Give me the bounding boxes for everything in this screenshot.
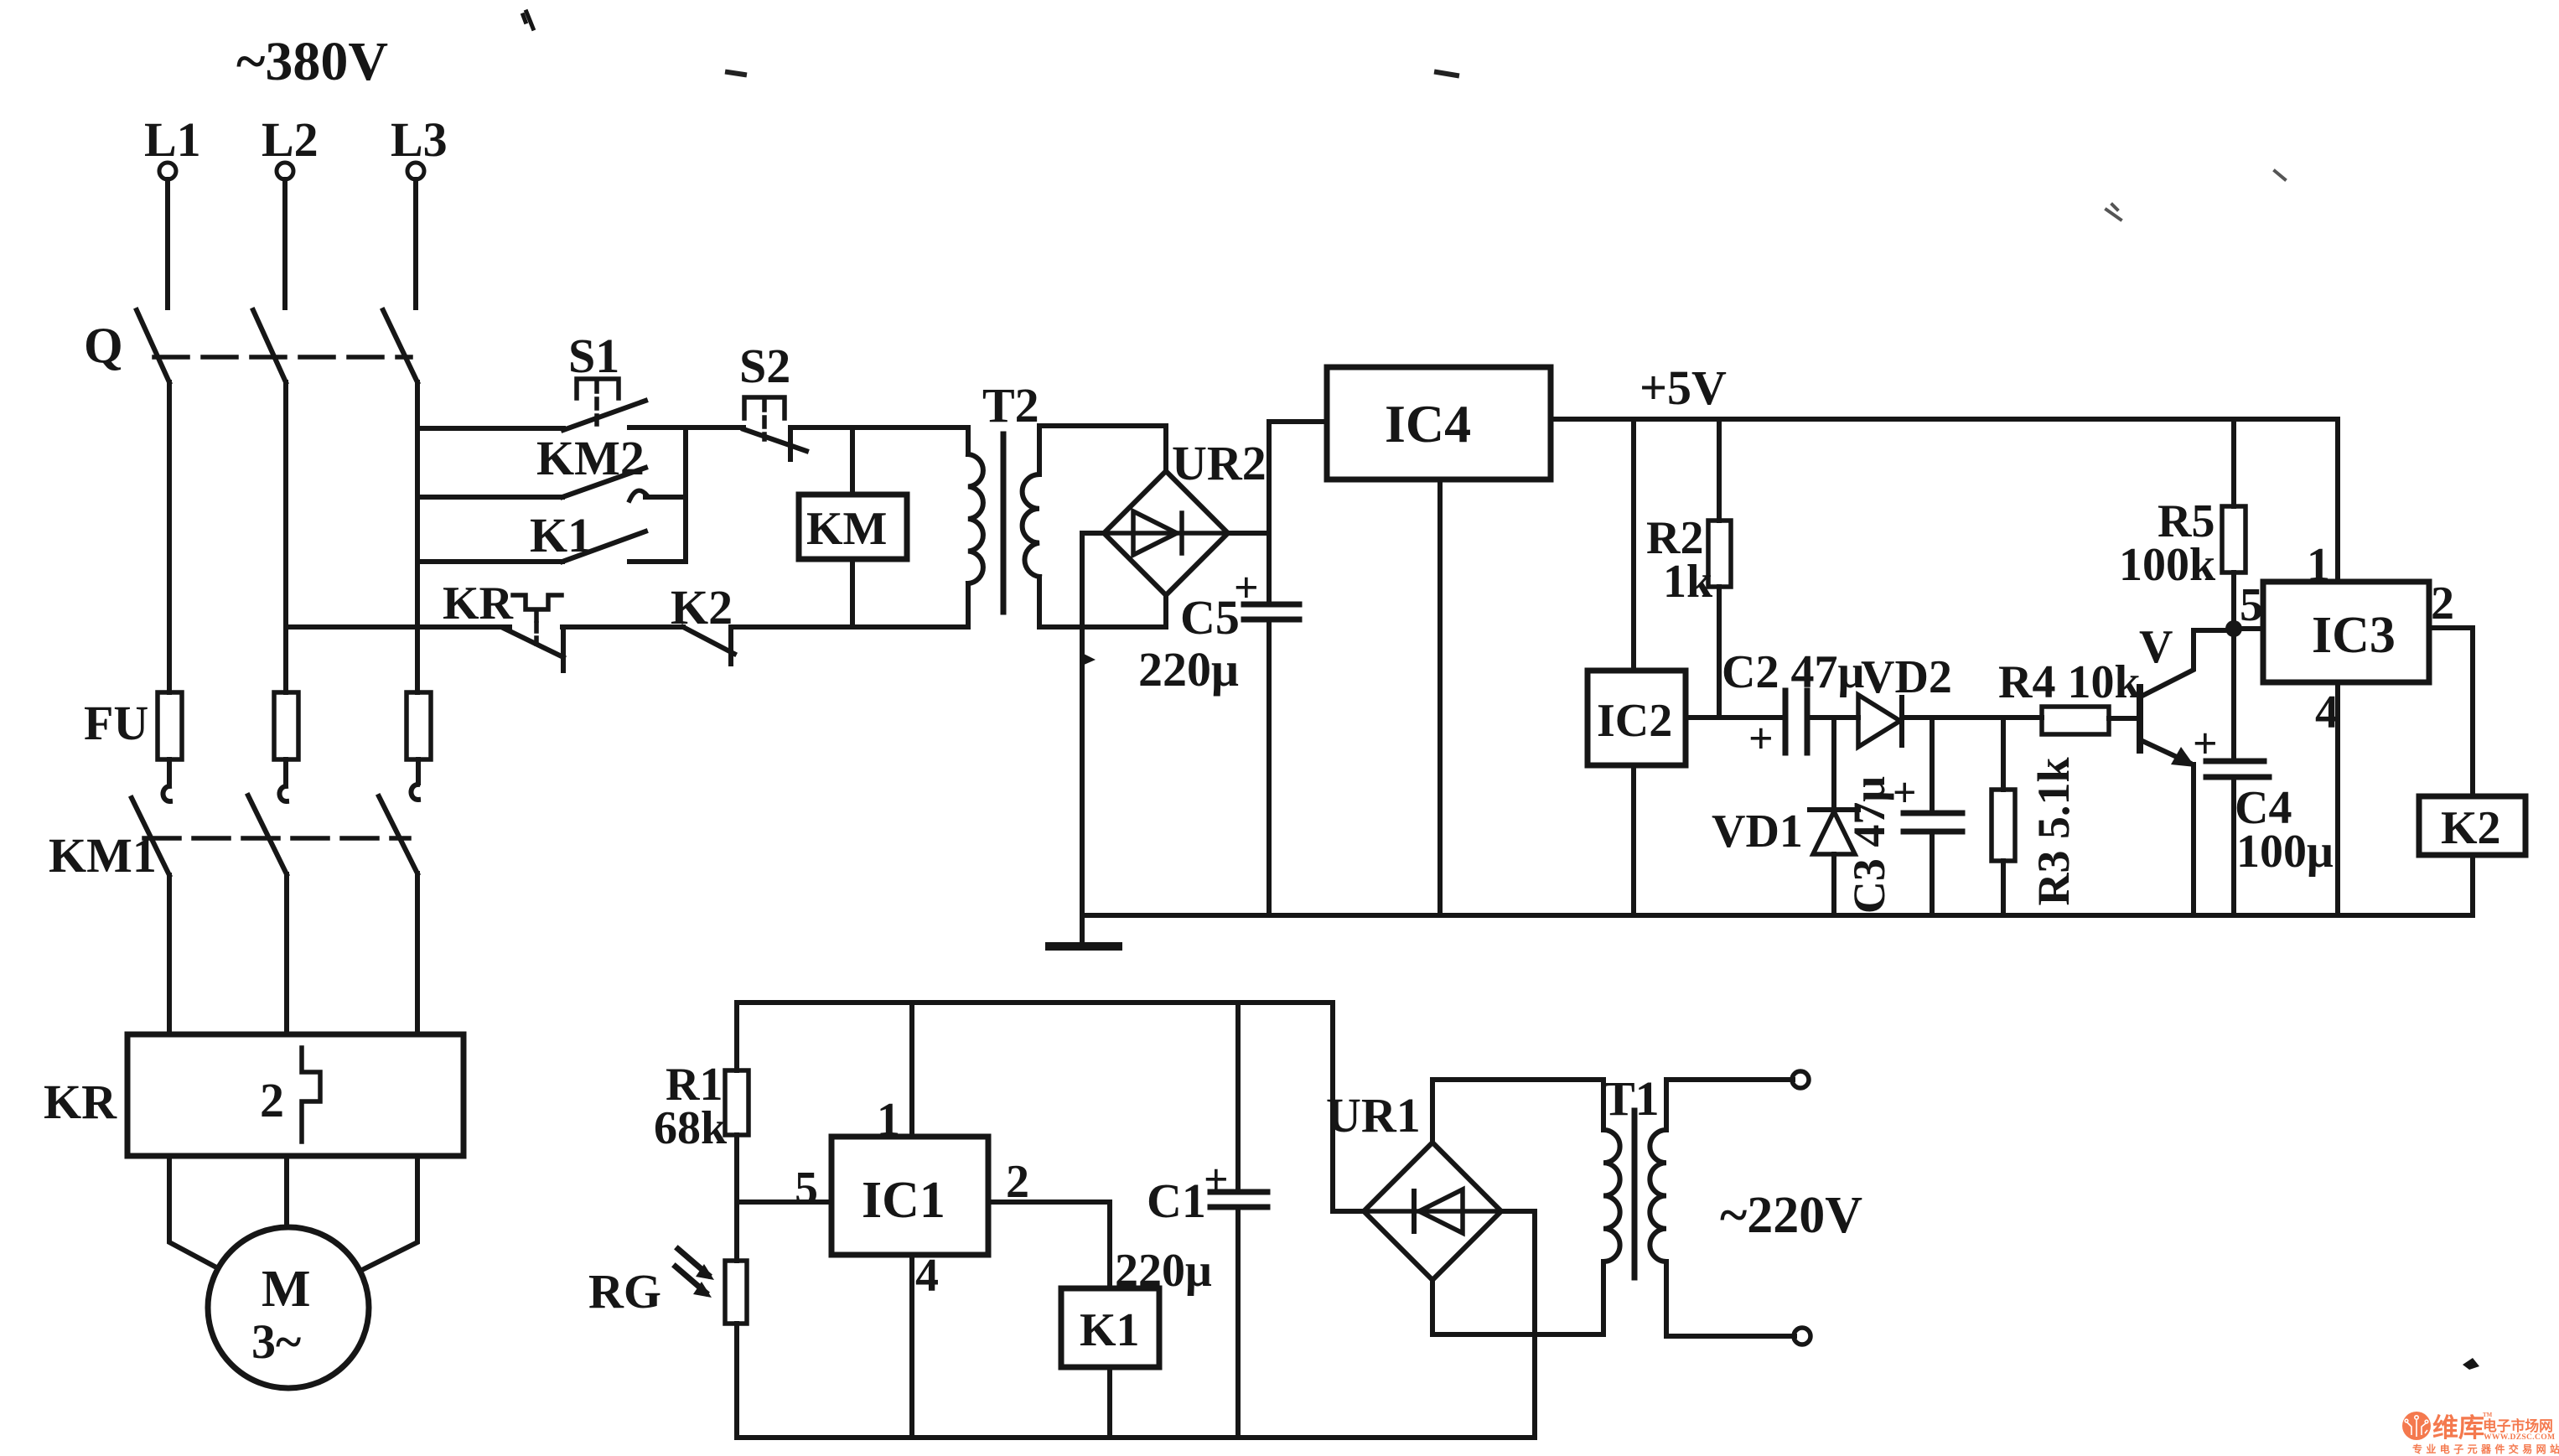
svg-text:4: 4 bbox=[2315, 687, 2339, 738]
wire UR2 right corner to C5 node bbox=[1228, 531, 1269, 536]
thermal relay KR heater element bbox=[302, 1048, 320, 1142]
diode VD1 cathode bar bbox=[1810, 807, 1858, 812]
thermal contact KR stem (dashed) bbox=[534, 624, 539, 644]
svg-text:R3 5.1k: R3 5.1k bbox=[2028, 757, 2079, 905]
svg-text:S2: S2 bbox=[739, 339, 790, 393]
wire KR return from L2 bbox=[286, 624, 510, 630]
scan speck near watermark bbox=[2463, 1358, 2479, 1370]
svg-text:~220V: ~220V bbox=[1720, 1187, 1862, 1244]
wire top rail to C1 bbox=[1235, 1003, 1241, 1192]
wire IC3 pin4 to rail bbox=[2335, 682, 2340, 915]
transformer T1 primary winding bbox=[1603, 1130, 1620, 1262]
capacitor C1 top plate bbox=[1210, 1189, 1267, 1195]
wire L1 switch to fuse bbox=[167, 382, 172, 692]
svg-text:+5V: +5V bbox=[1640, 360, 1727, 415]
switch Q blade pole 1 bbox=[137, 310, 169, 382]
capacitor C5 bottom plate bbox=[1244, 617, 1299, 623]
pushbutton S2 stem (dashed) bbox=[762, 401, 767, 439]
wire +5V to R2 bbox=[1717, 419, 1722, 521]
wire node to R3 bbox=[2001, 718, 2006, 790]
contact KM2 blade bbox=[562, 468, 645, 497]
svg-text:VD1: VD1 bbox=[1712, 806, 1803, 858]
svg-text:C5: C5 bbox=[1180, 590, 1240, 645]
contactor KM1 blade 1 bbox=[132, 798, 169, 875]
resistor R3 body bbox=[1992, 790, 2015, 861]
wire rail to R1 bbox=[734, 1003, 739, 1070]
wire IC3 pin1 to +5V bbox=[2335, 419, 2340, 582]
transformer T2 core bbox=[1001, 434, 1007, 612]
capacitor C4 bottom plate bbox=[2206, 775, 2269, 780]
wire UR1 bottom to T1 primary bbox=[1432, 1262, 1603, 1334]
wire top rail down to UR1 bbox=[1333, 1003, 1364, 1211]
svg-text:KM1: KM1 bbox=[49, 828, 157, 883]
wire KM1 pole1 to KR box bbox=[167, 875, 172, 1034]
svg-text:1: 1 bbox=[877, 1094, 900, 1146]
svg-text:~380V: ~380V bbox=[236, 31, 388, 92]
wire KR to K2 contact bbox=[562, 624, 683, 630]
capacitor C3 bottom plate bbox=[1904, 829, 1962, 835]
terminal 220V top bbox=[1792, 1071, 1809, 1088]
wire emitter to rail bbox=[2191, 764, 2196, 915]
terminal 220V bottom bbox=[1794, 1328, 1810, 1345]
wire L2 switch to fuse bbox=[283, 382, 288, 692]
bottom section bottom rail bbox=[737, 1435, 1535, 1440]
+5V rail bbox=[1551, 417, 2338, 422]
bridge rectifier UR1 diamond bbox=[1364, 1143, 1501, 1280]
contactor KM1 blade 2 bbox=[248, 795, 287, 874]
relay K1 box bbox=[1061, 1288, 1159, 1367]
svg-text:100k: 100k bbox=[2119, 539, 2216, 591]
svg-text:专业电子元器件交易网站: 专业电子元器件交易网站 bbox=[2412, 1443, 2559, 1455]
bridge rectifier UR1 diode line bbox=[1364, 1209, 1501, 1214]
wire KM1 pole2 to KR box bbox=[284, 874, 289, 1034]
switch Q mechanical link (dashed) bbox=[154, 355, 411, 360]
wire T1 secondary top to terminal bbox=[1666, 1080, 1793, 1130]
bottom section top rail bbox=[737, 1000, 1333, 1005]
svg-text:1: 1 bbox=[2307, 539, 2330, 591]
IC4 box bbox=[1327, 367, 1551, 479]
wire R3 to rail bbox=[2001, 861, 2006, 915]
svg-text:IC3: IC3 bbox=[2312, 607, 2396, 664]
wire node to C3 bbox=[1930, 718, 1935, 813]
wire R4 to transistor base bbox=[2109, 716, 2140, 721]
svg-text:2: 2 bbox=[260, 1073, 284, 1127]
junction mark on ground wire bbox=[1082, 654, 1096, 666]
capacitor C4 top plate bbox=[2206, 759, 2264, 764]
svg-text:RG: RG bbox=[588, 1264, 661, 1319]
svg-text:V: V bbox=[2139, 621, 2173, 673]
wire IC1 pin4 to bottom rail bbox=[909, 1255, 914, 1438]
pushbutton S2 fixed tick bbox=[788, 427, 793, 459]
thermal contact KR fixed tick bbox=[561, 627, 566, 671]
wire C5 node up to IC4 input bbox=[1269, 422, 1327, 533]
svg-text:IC2: IC2 bbox=[1597, 695, 1672, 747]
coil KM top wire bbox=[850, 427, 855, 495]
transformer T2 primary bottom lead bbox=[966, 583, 971, 627]
svg-text:C3 47μ: C3 47μ bbox=[1844, 776, 1894, 914]
contactor KM1 fixed hook 2 bbox=[279, 786, 287, 801]
svg-text:L2: L2 bbox=[262, 112, 319, 167]
wire row B fixed side bbox=[645, 495, 686, 500]
pushbutton S2 blade bbox=[743, 429, 806, 451]
photoresistor RG light arrow 2 bbox=[676, 1267, 706, 1293]
bridge rectifier UR1 diode triangle bbox=[1419, 1189, 1463, 1233]
svg-text:+: + bbox=[1204, 1156, 1229, 1204]
switch Q blade pole 2 bbox=[253, 310, 286, 382]
contact K2 blade bbox=[683, 627, 734, 654]
svg-text:VD2: VD2 bbox=[1861, 651, 1952, 703]
wire RG to bottom rail bbox=[734, 1324, 739, 1438]
svg-text:220μ: 220μ bbox=[1115, 1245, 1212, 1297]
svg-text:K2: K2 bbox=[671, 580, 733, 635]
ground symbol bbox=[1080, 915, 1085, 944]
switch Q blade pole 3 bbox=[383, 310, 417, 382]
transformer T2 secondary bottom lead bbox=[1037, 577, 1042, 627]
transistor V emitter arrowhead bbox=[2171, 747, 2195, 767]
wire under fuse 2 bbox=[283, 759, 288, 783]
wire IC3 pin2 to K2 bbox=[2429, 628, 2473, 796]
scan speck top bbox=[523, 12, 533, 28]
diode VD2 triangle bbox=[1858, 695, 1900, 747]
contactor KM1 fixed hook 3 bbox=[411, 785, 418, 800]
resistor R1 body bbox=[725, 1070, 749, 1135]
transformer T1 secondary winding bbox=[1650, 1130, 1666, 1262]
junction node dot at IC3 pin5 bbox=[2225, 620, 2242, 637]
scan speck mid left bbox=[728, 72, 1457, 75]
transistor V collector bbox=[2142, 630, 2228, 696]
transformer T2 primary top lead bbox=[966, 427, 971, 454]
svg-text:T2: T2 bbox=[982, 378, 1039, 433]
capacitor C2 right plate bbox=[1805, 691, 1810, 753]
pushbutton S1 cap bbox=[577, 379, 619, 398]
wire R5 to node 5 bbox=[2231, 573, 2236, 629]
contact KM2 NC hook bbox=[629, 490, 647, 500]
wire UR1 top to T1 primary bbox=[1432, 1080, 1603, 1143]
ground rail (0V) bbox=[1082, 913, 2473, 918]
wire row C from L3 bbox=[417, 559, 562, 564]
contactor KM1 blade 3 bbox=[379, 796, 417, 873]
wire node to IC1 pin5 bbox=[737, 1200, 831, 1205]
svg-text:+: + bbox=[1748, 715, 1774, 763]
watermark logo circle bbox=[2402, 1412, 2431, 1440]
resistor R2 body bbox=[1708, 521, 1731, 587]
svg-text:C2 47μ: C2 47μ bbox=[1722, 646, 1864, 698]
bridge rectifier UR2 diamond bbox=[1104, 471, 1228, 595]
resistor R5 body bbox=[2222, 506, 2246, 573]
fuse FU pole 2 bbox=[274, 692, 298, 759]
terminal L1 bbox=[159, 163, 176, 179]
wire IC2 bottom to rail bbox=[1631, 765, 1636, 915]
svg-text:5: 5 bbox=[795, 1163, 818, 1215]
wire IC4 bottom pin to rail bbox=[1437, 479, 1443, 915]
photoresistor RG body bbox=[725, 1261, 747, 1324]
wire C5 bottom to rail bbox=[1267, 619, 1272, 915]
bridge rectifier UR2 diode line bbox=[1104, 531, 1228, 536]
wire L1 to switch Q bbox=[165, 179, 170, 308]
wire under fuse 1 bbox=[167, 759, 172, 783]
wire C2 to VD2 bbox=[1807, 715, 1858, 720]
wire K2 to rail bbox=[2470, 855, 2475, 915]
wire under fuse 3 bbox=[416, 759, 421, 783]
pushbutton S2 cap bbox=[744, 397, 785, 418]
wire R2 to node line bbox=[1717, 587, 1722, 718]
svg-text:68k: 68k bbox=[654, 1102, 728, 1154]
transformer T2 primary winding bbox=[968, 454, 983, 583]
coil KM box bbox=[799, 495, 907, 559]
thermal contact KR blade bbox=[503, 628, 563, 657]
terminal L3 bbox=[407, 163, 424, 179]
wire C3 to rail bbox=[1930, 832, 1935, 915]
wire T2 secondary bottom to UR2 bbox=[1039, 595, 1166, 627]
svg-text:T1: T1 bbox=[1603, 1071, 1660, 1126]
svg-text:S1: S1 bbox=[568, 329, 619, 383]
wire K1 to bottom rail bbox=[1107, 1367, 1112, 1438]
svg-text:L3: L3 bbox=[391, 112, 448, 167]
svg-text:2: 2 bbox=[2431, 578, 2454, 630]
pushbutton S1 stem (dashed) bbox=[594, 382, 599, 424]
transformer T2 secondary top lead bbox=[1037, 426, 1042, 474]
capacitor C2 left plate bbox=[1783, 691, 1789, 753]
wire node to VD1 bbox=[1831, 718, 1836, 810]
svg-text:Q: Q bbox=[84, 318, 123, 373]
transistor V base bar bbox=[2137, 687, 2143, 750]
wire L3 switch to fuse (with control taps) bbox=[415, 382, 420, 692]
wire +5V to IC2 bbox=[1631, 419, 1636, 671]
bridge rectifier UR2 diode triangle bbox=[1133, 511, 1177, 555]
wire L3 to switch Q bbox=[413, 179, 418, 308]
capacitor C1 bottom plate bbox=[1210, 1205, 1267, 1210]
svg-text:100μ: 100μ bbox=[2236, 826, 2334, 878]
wire K2 to T2 primary bottom bbox=[731, 624, 968, 630]
wire L2 to switch Q bbox=[282, 179, 287, 308]
wire S2 to T2 primary top bbox=[790, 425, 968, 430]
svg-text:TM: TM bbox=[2483, 1412, 2493, 1418]
svg-text:3~: 3~ bbox=[251, 1314, 301, 1369]
thermal relay KR box bbox=[127, 1034, 464, 1156]
photoresistor RG light arrow 1 bbox=[678, 1249, 708, 1275]
svg-text:220μ: 220μ bbox=[1138, 642, 1239, 697]
wire T2 secondary top to UR2 bbox=[1039, 426, 1166, 471]
contactor KM1 link (dashed) bbox=[144, 836, 409, 841]
svg-text:+: + bbox=[1893, 769, 1917, 816]
contact K2 fixed tick bbox=[728, 627, 733, 664]
diode VD1 triangle bbox=[1813, 811, 1855, 854]
svg-text:K2: K2 bbox=[2441, 802, 2501, 854]
transistor V emitter bbox=[2142, 741, 2189, 763]
wire UR1 right to bottom rail bbox=[1501, 1211, 1535, 1438]
wire row A fixed side to S2 bbox=[629, 425, 743, 430]
wire KR to motor phase 2 bbox=[284, 1156, 289, 1227]
wire KR to motor phase 3 bbox=[360, 1156, 417, 1271]
wire common vertical joining rows A B C bbox=[683, 427, 688, 562]
svg-text:4: 4 bbox=[915, 1250, 939, 1302]
wire node to IC3 pin5 bbox=[2234, 626, 2263, 631]
transformer T1 core bbox=[1632, 1111, 1638, 1277]
watermark logo circuit tree bbox=[2405, 1416, 2428, 1437]
wire row A from L3 bbox=[417, 426, 563, 431]
terminal L2 bbox=[277, 163, 293, 179]
svg-text:C1: C1 bbox=[1147, 1174, 1206, 1228]
wire IC1 pin2 to K1 bbox=[988, 1202, 1110, 1288]
capacitor C3 top plate bbox=[1904, 811, 1962, 816]
wire KR to motor phase 1 bbox=[169, 1156, 218, 1268]
IC1 box bbox=[831, 1137, 988, 1255]
scan speck top right 1 bbox=[2106, 205, 2121, 220]
wire IC1 pin1 to top rail bbox=[909, 1003, 914, 1137]
svg-text:UR2: UR2 bbox=[1172, 436, 1267, 490]
contact K1 blade bbox=[562, 531, 645, 562]
wire C1 to bottom rail bbox=[1235, 1207, 1241, 1438]
wire VD1 to rail bbox=[1831, 854, 1836, 915]
coil KM bottom wire bbox=[850, 559, 855, 627]
wire IC2 output to C2 bbox=[1686, 715, 1785, 720]
svg-text:M: M bbox=[262, 1261, 311, 1318]
wire C4 to rail bbox=[2231, 777, 2236, 915]
svg-text:5: 5 bbox=[2240, 579, 2263, 631]
fuse FU pole 1 bbox=[158, 692, 182, 759]
wire node to C4 top plate bbox=[2231, 629, 2236, 761]
wire T1 secondary bottom to terminal bbox=[1666, 1262, 1795, 1336]
capacitor C5 top plate bbox=[1244, 602, 1299, 608]
IC3 box bbox=[2263, 582, 2429, 682]
wire +5V to R5 bbox=[2231, 419, 2236, 506]
svg-text:维库: 维库 bbox=[2432, 1413, 2484, 1443]
wire R1 to RG bbox=[734, 1135, 739, 1261]
wire UR2 left corner down to ground rail bbox=[1082, 533, 1104, 915]
svg-text:UR1: UR1 bbox=[1326, 1088, 1421, 1143]
svg-text:KR: KR bbox=[443, 578, 514, 630]
fuse FU pole 3 bbox=[407, 692, 431, 759]
svg-text:IC1: IC1 bbox=[862, 1172, 945, 1229]
wire C5 node down to top plate bbox=[1267, 533, 1272, 604]
bridge rectifier UR2 diode bar bbox=[1179, 513, 1184, 553]
contactor KM1 fixed hook 1 bbox=[163, 786, 170, 801]
wire row C fixed side bbox=[629, 559, 686, 564]
svg-text:1k: 1k bbox=[1663, 556, 1713, 608]
svg-text:KR: KR bbox=[44, 1075, 117, 1129]
motor M circle bbox=[208, 1227, 369, 1388]
svg-text:KM2: KM2 bbox=[536, 431, 645, 485]
thermal contact KR actuator bracket bbox=[513, 595, 562, 620]
transformer T2 secondary winding bbox=[1023, 474, 1039, 577]
IC2 box bbox=[1588, 671, 1686, 765]
diode VD2 cathode bar bbox=[1899, 697, 1904, 745]
svg-text:FU: FU bbox=[84, 696, 148, 750]
svg-text:KM: KM bbox=[806, 503, 887, 555]
svg-text:WWW.DZSC.COM: WWW.DZSC.COM bbox=[2484, 1433, 2555, 1442]
wire row B from L3 bbox=[417, 495, 562, 500]
wire KM1 pole3 to KR box bbox=[415, 873, 420, 1034]
resistor R4 body bbox=[2042, 707, 2109, 734]
svg-text:电子市场网: 电子市场网 bbox=[2483, 1417, 2553, 1434]
wire VD2 to R4 (with taps) bbox=[1902, 715, 2042, 720]
svg-text:IC4: IC4 bbox=[1385, 394, 1471, 453]
svg-text:K1: K1 bbox=[1080, 1304, 1140, 1356]
bridge rectifier UR1 diode bar bbox=[1412, 1191, 1417, 1231]
svg-text:L1: L1 bbox=[144, 112, 201, 167]
relay K2 box bbox=[2419, 796, 2525, 855]
pushbutton S1 blade bbox=[563, 401, 645, 430]
svg-text:R4 10k: R4 10k bbox=[1998, 656, 2141, 708]
scan speck top right 2 bbox=[2275, 171, 2285, 179]
